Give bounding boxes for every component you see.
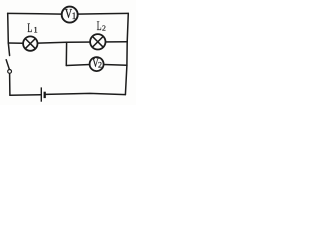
svg-text:L: L bbox=[97, 19, 102, 33]
voltmeter V2 bbox=[90, 56, 104, 71]
label L1 bbox=[27, 21, 37, 35]
voltmeter V1 bbox=[62, 7, 78, 23]
wire top side (through V1) bbox=[8, 12, 129, 15]
wire bottom left (corner to battery) bbox=[10, 94, 40, 96]
svg-text:1: 1 bbox=[72, 11, 77, 21]
wire lamp branch (left wire through L1 to junction, through L2 to right wire) bbox=[8, 42, 127, 44]
svg-text:2: 2 bbox=[98, 61, 102, 70]
wire left side vertical lower (switch to bottom corner) bbox=[9, 73, 11, 95]
wire V2 branch (junction through V2 to right wire) bbox=[66, 64, 127, 65]
svg-text:2: 2 bbox=[102, 23, 106, 32]
battery (cell) bbox=[41, 87, 44, 101]
lamp L1 bbox=[23, 36, 37, 50]
wire junction vertical drop (node to V2 branch) bbox=[65, 42, 67, 65]
wire right side vertical bbox=[125, 13, 128, 94]
svg-text:L: L bbox=[27, 21, 32, 35]
label L2 bbox=[97, 19, 106, 33]
svg-text:1: 1 bbox=[34, 26, 38, 35]
lamp L2 bbox=[90, 34, 105, 49]
wire left side vertical upper (top corner to switch) bbox=[8, 13, 10, 55]
switch S (open knife switch) bbox=[6, 59, 12, 73]
wire bottom right (battery to bottom-right corner) bbox=[46, 93, 126, 94]
